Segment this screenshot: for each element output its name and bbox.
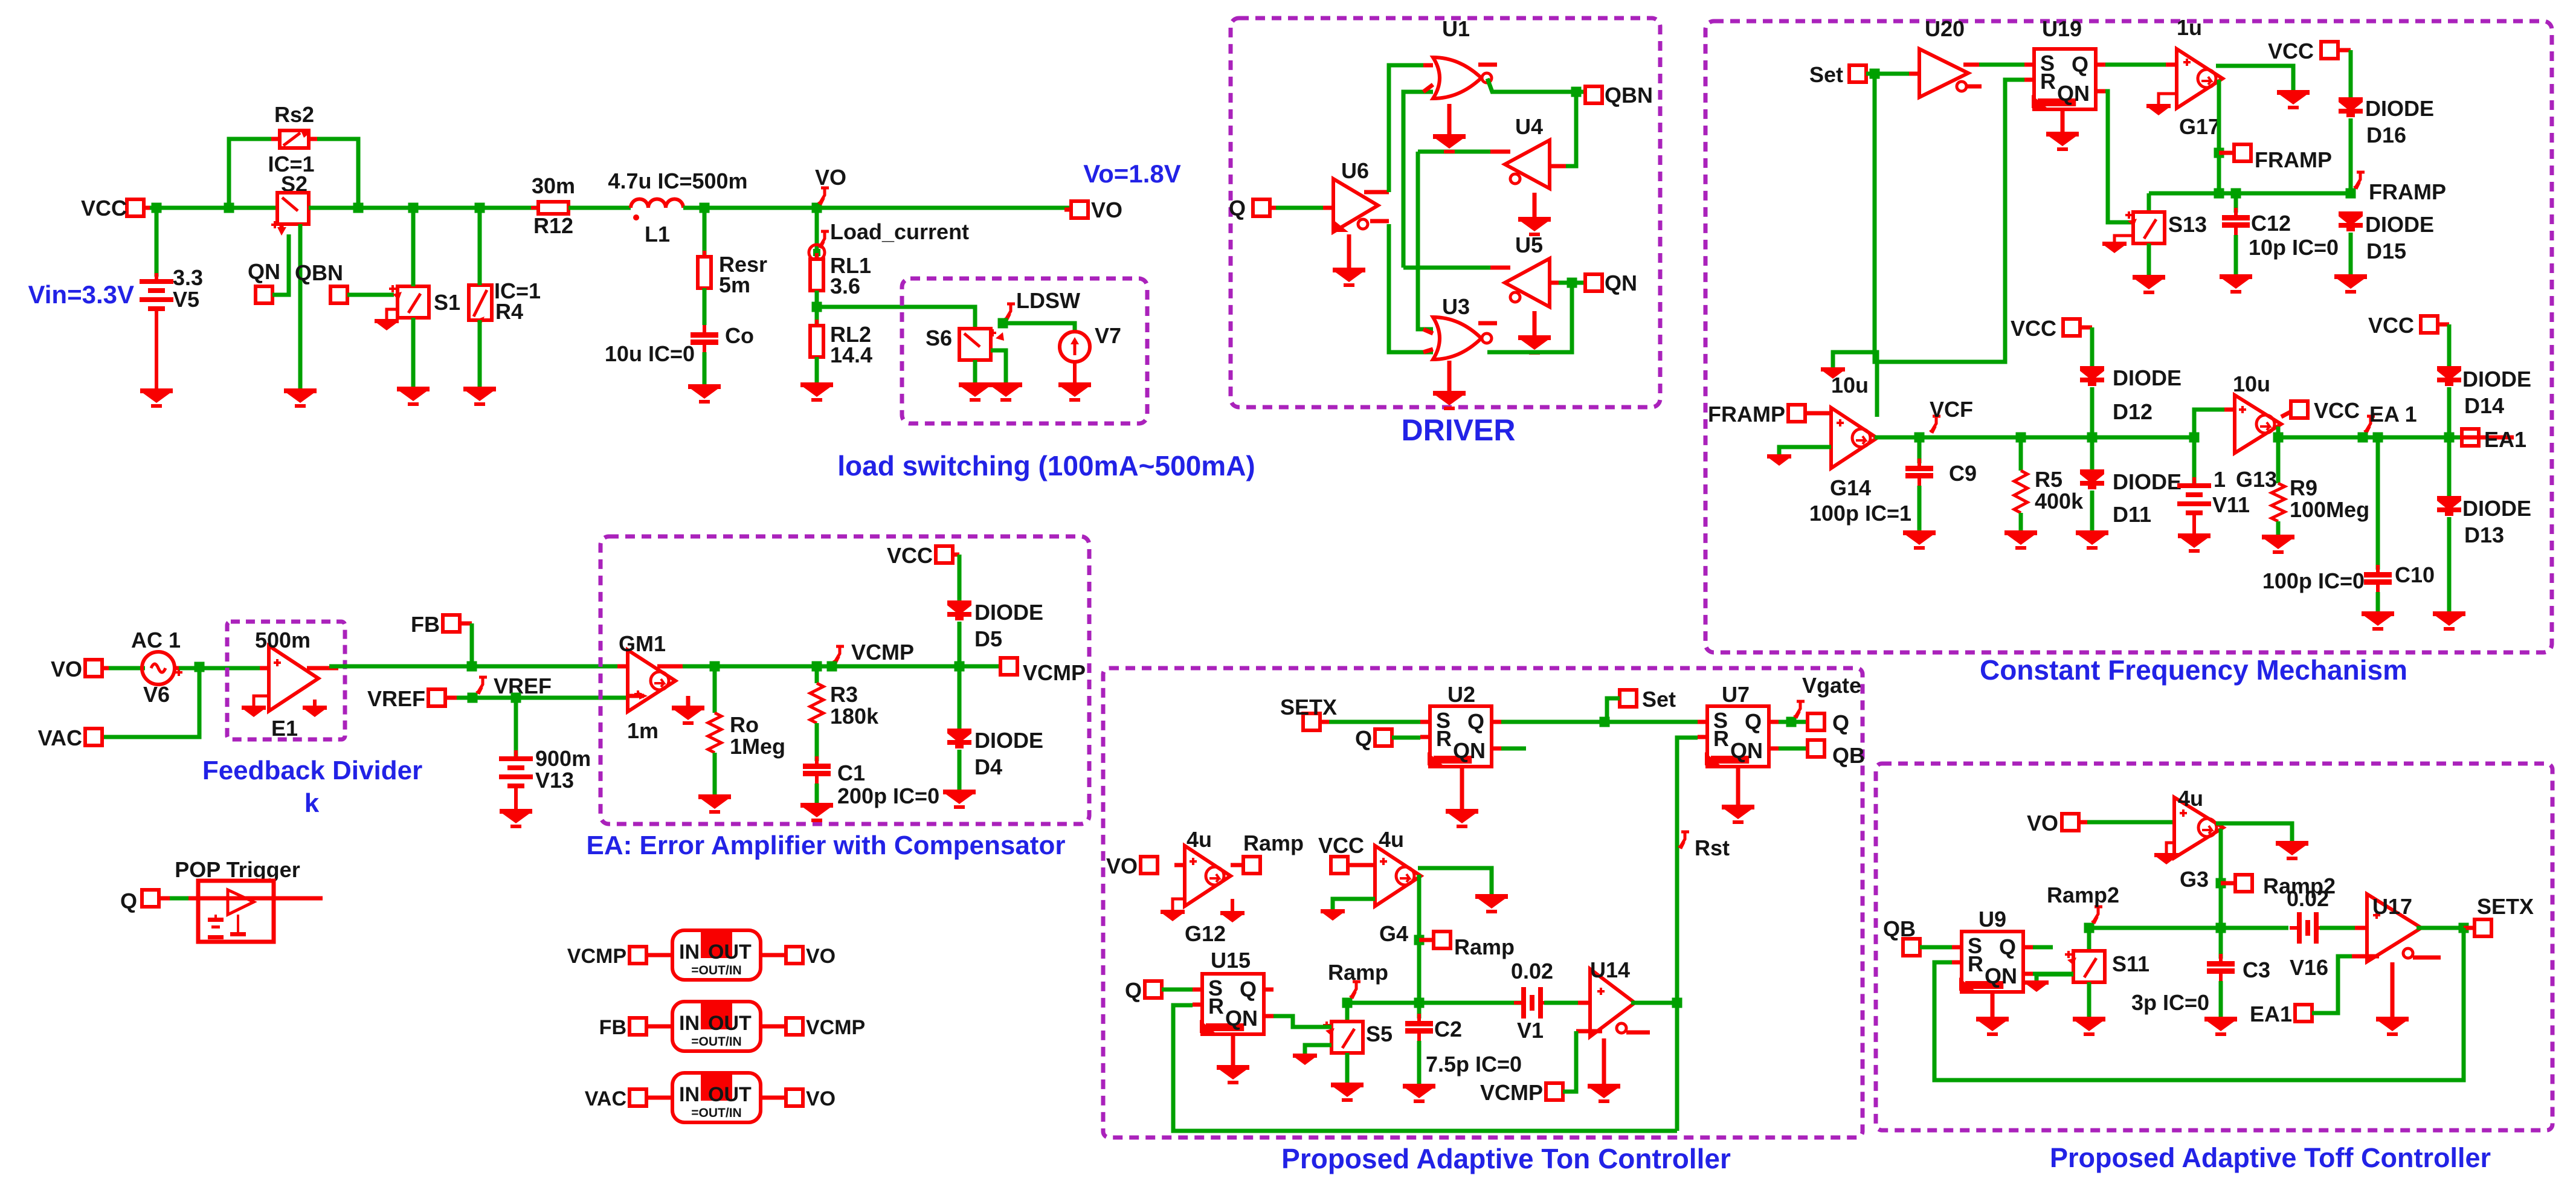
label G13: [2236, 467, 2277, 492]
node junction SETX: [2459, 923, 2469, 933]
wire D13 to ground: [2447, 517, 2452, 611]
svg-text:C9: C9: [1949, 461, 1977, 486]
wire VREF to GM1: [457, 696, 628, 700]
wire G4 to ramp node: [1417, 875, 1422, 1003]
svg-text:V16: V16: [2290, 955, 2328, 980]
terminal VCMP (ea out): [1000, 658, 1086, 685]
probe Rst: [1678, 832, 1730, 860]
svg-text:3.3: 3.3: [173, 265, 203, 290]
amplifier E1: [260, 646, 338, 711]
ground C9: [1903, 530, 1936, 550]
probe Ramp2: [2047, 883, 2119, 924]
wire Co to ground: [703, 352, 707, 384]
ground C2: [1403, 1084, 1435, 1103]
node junction C10: [2373, 433, 2383, 443]
label S11: [2112, 951, 2149, 976]
label C12: [2251, 211, 2291, 236]
label V7: [1095, 323, 1121, 348]
node junction S1: [408, 203, 419, 213]
wire U14 out: [1631, 1001, 1677, 1005]
wire G4 input ground: [1333, 899, 1375, 909]
wire FB drop: [470, 623, 474, 666]
label 4u (G4): [1379, 827, 1404, 852]
ground S11: [2073, 1017, 2105, 1036]
node junction Set: [1600, 717, 1610, 727]
wire S13 small ground: [2114, 236, 2133, 242]
wire U19.Q to G17: [2105, 63, 2175, 67]
label U15: [1211, 948, 1251, 973]
wire EA1 to U17: [2312, 956, 2352, 1013]
terminal VO (fb in): [51, 657, 112, 681]
svg-text:10p IC=0: 10p IC=0: [2249, 235, 2339, 260]
label 1Meg: [730, 734, 785, 759]
terminal EA1 (u17): [2250, 1002, 2312, 1026]
svg-text:VCMP: VCMP: [1480, 1080, 1543, 1105]
wire D12 to bus: [2090, 387, 2095, 437]
wire Q to U15.S: [1162, 988, 1193, 992]
svg-text:VCF: VCF: [1930, 397, 1973, 422]
node junction C9: [1914, 433, 1925, 443]
wire V6 to E1: [179, 666, 260, 671]
svg-text:1Meg: 1Meg: [730, 734, 785, 759]
svg-text:IN: IN: [679, 1083, 700, 1106]
resistor Ro: [708, 666, 721, 753]
label DIODE (D11): [2113, 469, 2182, 494]
switch S1: [389, 285, 429, 318]
wire Rst column: [1677, 738, 1698, 1131]
svg-text:3p IC=0: 3p IC=0: [2131, 990, 2209, 1015]
label R3: [830, 682, 858, 707]
label Toff title: [2050, 1142, 2491, 1173]
label 4u (G3): [2178, 786, 2203, 811]
svg-text:500m: 500m: [255, 628, 311, 652]
label D5: [974, 626, 1002, 651]
terminal QBN: [295, 260, 347, 303]
wire Resr to Co: [703, 288, 707, 325]
terminal Q (u2 r): [1355, 726, 1392, 751]
wire D4 to ground: [958, 750, 962, 790]
ground U6: [1333, 234, 1365, 287]
wire V11 to ground: [2192, 518, 2196, 533]
wire C3 to ground: [2219, 981, 2223, 1017]
svg-text:QN: QN: [248, 259, 280, 284]
label 30m: [532, 173, 575, 198]
svg-text:10u IC=0: 10u IC=0: [605, 341, 695, 366]
svg-text:QN: QN: [1985, 964, 2017, 988]
node junction C3: [2216, 923, 2226, 933]
terminal SETX (ton): [1280, 695, 1337, 730]
svg-text:400k: 400k: [2035, 489, 2084, 513]
label D12: [2113, 399, 2153, 424]
svg-text:Constant Frequency Mechanism: Constant Frequency Mechanism: [1980, 654, 2407, 686]
ground R9: [2262, 535, 2294, 554]
diode D14: [2437, 366, 2461, 386]
box DRIVER: [1231, 18, 1660, 407]
svg-text:U20: U20: [1925, 16, 1965, 41]
comparator U17: [2352, 894, 2441, 962]
svg-text:VO: VO: [51, 657, 82, 681]
wire SETX to U2: [1329, 720, 1420, 724]
nor gate U1: [1423, 57, 1497, 98]
label 200p IC=0 (C1): [837, 784, 939, 808]
wire S6 to grounds: [975, 350, 1006, 382]
gm cell GM1: [617, 650, 686, 712]
svg-text:5m: 5m: [719, 272, 750, 297]
ground C10: [2362, 611, 2394, 631]
wire D16 to FRAMP bus: [2349, 118, 2353, 193]
terminal VCC (D5): [887, 543, 959, 568]
label S6: [926, 326, 952, 350]
box EA: [601, 536, 1089, 824]
label DIODE (D16): [2365, 96, 2434, 121]
svg-text:Vo=1.8V: Vo=1.8V: [1083, 159, 1180, 188]
label D16: [2366, 123, 2406, 147]
wire VCC to D12: [2090, 327, 2095, 367]
probe FRAMP: [2353, 172, 2446, 204]
resistor R3: [810, 666, 823, 723]
svg-text:DIODE: DIODE: [2462, 367, 2531, 391]
ground G17 input: [2146, 104, 2171, 115]
svg-text:4.7u IC=500m: 4.7u IC=500m: [608, 169, 747, 193]
svg-text:VO: VO: [806, 1087, 836, 1110]
ground G4 out: [1475, 894, 1508, 913]
svg-text:U3: U3: [1442, 294, 1470, 319]
block FB to VCMP: [599, 1002, 866, 1051]
svg-text:GM1: GM1: [619, 631, 666, 656]
svg-text:Q: Q: [120, 889, 137, 913]
node junction C2: [1414, 998, 1425, 1008]
svg-text:U9: U9: [1979, 907, 2006, 932]
svg-text:VCMP: VCMP: [851, 640, 914, 665]
wire GM1 out rail: [683, 665, 1001, 669]
svg-text:7.5p IC=0: 7.5p IC=0: [1426, 1052, 1522, 1076]
switch S11: [2065, 928, 2105, 982]
terminal FB: [411, 612, 472, 637]
node junction VCMP probe: [827, 661, 837, 672]
svg-text:R5: R5: [2035, 467, 2062, 492]
wire G3 small ground: [2166, 843, 2174, 853]
probe Vgate: [1793, 673, 1861, 719]
probe VCF: [1929, 397, 1973, 434]
gm cell G3: [2174, 797, 2223, 858]
wire D15 to ground: [2349, 233, 2353, 274]
wire Ramp bus: [1347, 1001, 1523, 1005]
svg-text:U14: U14: [1590, 957, 1630, 982]
source V6: [142, 652, 182, 684]
probe VCMP (ea): [832, 640, 914, 665]
label E1: [271, 716, 298, 741]
svg-text:10u: 10u: [1831, 373, 1869, 397]
svg-text:Proposed Adaptive Ton Controll: Proposed Adaptive Ton Controller: [1281, 1143, 1731, 1174]
ground S5 gate: [1293, 1054, 1317, 1065]
svg-text:1u: 1u: [2177, 15, 2202, 40]
label G17: [2179, 114, 2220, 139]
node junction Resr: [700, 203, 710, 213]
resistor R5: [2014, 437, 2027, 513]
label 0.02 (V1): [1511, 959, 1553, 983]
inverter U20: [1909, 49, 1982, 97]
svg-text:Set: Set: [1642, 687, 1676, 712]
terminal VAC: [38, 726, 102, 750]
wire U5 to QN net: [1559, 281, 1586, 285]
svg-text:R3: R3: [830, 682, 858, 707]
comparator U14: [1576, 969, 1650, 1037]
inductor L1: [631, 199, 683, 221]
svg-text:QB: QB: [1883, 916, 1916, 941]
terminal VCC: [81, 196, 151, 220]
terminal QN (driver): [1585, 271, 1637, 295]
svg-text:EA: Error Amplifier with Compe: EA: Error Amplifier with Compensator: [587, 831, 1066, 860]
wire G17 out down: [2217, 80, 2221, 193]
node junction D4: [955, 661, 965, 672]
svg-text:0.02: 0.02: [2287, 886, 2329, 911]
wire G17 out rail: [2216, 66, 2293, 90]
battery V1: [1514, 987, 1550, 1018]
ground GM1: [672, 696, 704, 725]
wire R5 to ground: [2019, 513, 2023, 530]
label load switching: [837, 450, 1255, 481]
svg-text:Ramp: Ramp: [1328, 960, 1388, 985]
wire Ramp2 bus: [2089, 926, 2221, 930]
svg-text:3.6: 3.6: [830, 274, 860, 298]
svg-text:Co: Co: [725, 323, 754, 348]
svg-text:V7: V7: [1095, 323, 1121, 348]
wire S13 to ground: [2147, 243, 2151, 275]
svg-text:100p IC=1: 100p IC=1: [1809, 501, 1911, 526]
flip-flop U7: [1698, 706, 1779, 767]
svg-text:Q: Q: [1355, 726, 1372, 751]
svg-text:DIODE: DIODE: [974, 600, 1043, 625]
wire bus up to G13: [2194, 410, 2235, 437]
label U7: [1722, 682, 1750, 707]
svg-text:U6: U6: [1341, 158, 1369, 183]
label 100p IC=0 (C10): [2262, 568, 2365, 593]
svg-text:VCC: VCC: [2368, 313, 2414, 338]
svg-text:E1: E1: [271, 716, 298, 741]
svg-text:S11: S11: [2112, 951, 2149, 976]
wire U9.QN to S11: [2033, 972, 2073, 976]
flip-flop U2: [1420, 706, 1501, 767]
label C10: [2395, 562, 2435, 587]
wire S5 small ground: [1305, 1045, 1331, 1054]
wire S2 drain to ground: [298, 224, 303, 388]
node junction D11: [2087, 433, 2098, 443]
svg-text:Proposed Adaptive Toff Control: Proposed Adaptive Toff Controller: [2050, 1142, 2491, 1173]
ground C12: [2220, 274, 2252, 294]
flip-flop U19: [2024, 49, 2105, 109]
capacitor C9: [1905, 437, 1933, 486]
label Constant Frequency Mechanism: [1980, 654, 2407, 686]
wire net C (U4 out to U3.in1): [1418, 152, 1490, 329]
label 0.02 (V16): [2287, 886, 2329, 911]
ground G14 input: [1767, 454, 1791, 466]
svg-text:R: R: [1208, 994, 1224, 1018]
terminal Q (ton out): [1808, 710, 1849, 735]
resistor Rs2: [271, 129, 317, 148]
svg-text:DRIVER: DRIVER: [1402, 413, 1516, 447]
label R4: [495, 299, 523, 324]
svg-text:Q: Q: [1467, 709, 1484, 734]
wire D11 to ground: [2090, 491, 2095, 530]
svg-text:k: k: [304, 788, 320, 818]
label U2: [1447, 682, 1475, 707]
ground U14: [1588, 1038, 1620, 1103]
label 4u (G12): [1187, 827, 1212, 852]
label DIODE (D15): [2365, 212, 2434, 237]
wire U15.QN to S5: [1274, 1016, 1331, 1027]
wire VO to V6: [109, 666, 145, 671]
label D14: [2464, 393, 2504, 418]
svg-text:VCC: VCC: [2314, 398, 2360, 423]
wire U20 to U19.S: [1979, 63, 2024, 67]
label V16: [2290, 955, 2328, 980]
svg-text:DIODE: DIODE: [974, 728, 1043, 753]
svg-text:OUT: OUT: [708, 941, 752, 964]
svg-text:4u: 4u: [1187, 827, 1212, 852]
battery V13: [499, 698, 533, 796]
wire C12 to ground: [2234, 235, 2238, 274]
probe Ramp (bus): [1328, 960, 1388, 999]
svg-text:AC 1: AC 1: [131, 628, 181, 652]
label U5: [1515, 233, 1543, 257]
node junction Rs2-right: [353, 203, 364, 213]
svg-text:Ramp2: Ramp2: [2047, 883, 2119, 907]
node junction Vgate: [1786, 717, 1797, 727]
ground U5: [1518, 311, 1551, 355]
label D13: [2464, 523, 2504, 547]
resistor Resr: [698, 251, 711, 294]
wire V5 to ground: [155, 314, 158, 388]
svg-text:LDSW: LDSW: [1016, 288, 1080, 313]
wire RL1 to RL2: [815, 291, 819, 327]
wire Rs2 loop: [229, 139, 358, 208]
label DRIVER: [1402, 413, 1516, 447]
diode D13: [2437, 437, 2461, 516]
wire G12 input ground: [1173, 899, 1185, 910]
buffer U4: [1490, 140, 1566, 188]
label 900m: [535, 746, 591, 771]
svg-text:Vgate: Vgate: [1802, 673, 1861, 698]
terminal QB (ton out): [1808, 740, 1865, 768]
wire E1 to GM1: [329, 665, 619, 669]
svg-text:Rst: Rst: [1695, 835, 1730, 860]
terminal VCC (D12): [2011, 316, 2092, 341]
label V6: [143, 682, 170, 707]
svg-text:S13: S13: [2168, 212, 2207, 237]
wire D14 to bus: [2447, 387, 2452, 437]
node junction FRAMP a: [2214, 188, 2224, 199]
gm cell G12: [1174, 846, 1244, 906]
svg-text:G13: G13: [2236, 467, 2277, 492]
node junction LDSW: [998, 318, 1008, 329]
capacitor C1: [803, 723, 831, 784]
svg-text:D16: D16: [2366, 123, 2406, 147]
node junction FRAMP term: [2214, 148, 2224, 158]
svg-text:Q: Q: [1125, 978, 1142, 1003]
ground V13: [500, 809, 532, 828]
wire U9.Q stub: [2033, 945, 2053, 950]
svg-text:S1: S1: [434, 290, 460, 315]
label RL2: [830, 322, 871, 347]
label C9: [1949, 461, 1977, 486]
trigger POP Trigger: [160, 857, 323, 942]
diode D4: [947, 666, 971, 748]
resistor RL2: [810, 320, 823, 363]
ground E1 a: [242, 706, 266, 717]
ground G3 out: [2276, 841, 2308, 860]
wire R9 to ground: [2276, 521, 2281, 535]
svg-text:0.02: 0.02: [1511, 959, 1553, 983]
svg-text:D4: D4: [974, 755, 1002, 779]
svg-text:C3: C3: [2243, 957, 2270, 982]
svg-text:G14: G14: [1830, 475, 1871, 500]
svg-text:D13: D13: [2464, 523, 2504, 547]
wire U17 out: [2417, 926, 2464, 930]
ground C3: [2204, 1017, 2237, 1036]
label DIODE (D5): [974, 600, 1043, 625]
wire tap to S6: [817, 307, 975, 330]
label C1: [837, 761, 865, 785]
label Rs2: [274, 102, 314, 127]
capacitor C3: [2207, 928, 2235, 981]
svg-text:QN: QN: [2057, 81, 2090, 106]
terminal VO (g3): [2027, 811, 2091, 835]
svg-text:D15: D15: [2366, 239, 2406, 263]
svg-text:G17: G17: [2179, 114, 2220, 139]
resistor R9: [2272, 437, 2285, 521]
svg-text:FB: FB: [411, 612, 440, 637]
box load switching: [902, 278, 1147, 423]
svg-text:VO: VO: [1106, 854, 1138, 878]
ground U2: [1446, 767, 1478, 828]
svg-text:QN: QN: [1225, 1006, 1258, 1031]
node junction V11: [2189, 433, 2200, 443]
svg-text:SETX: SETX: [2477, 894, 2534, 919]
node junction QBN: [1571, 87, 1582, 97]
node junction Ramp left: [1342, 998, 1353, 1008]
ground R4: [463, 387, 496, 406]
svg-text:VO: VO: [815, 165, 846, 190]
wire EA1 bus: [2278, 436, 2514, 440]
source V5 wire: [155, 208, 159, 277]
svg-text:900m: 900m: [535, 746, 591, 771]
switch S13: [2125, 193, 2165, 243]
battery V16: [2290, 912, 2326, 944]
svg-text:EA1: EA1: [2484, 427, 2526, 452]
wire U19.QN to S13: [2105, 91, 2135, 222]
label Resr: [719, 252, 767, 277]
svg-text:R: R: [2040, 69, 2056, 94]
label R5: [2035, 467, 2062, 492]
resistor R12: [531, 202, 576, 214]
ground U3: [1433, 361, 1466, 410]
label V13: [535, 768, 574, 793]
svg-text:S5: S5: [1366, 1022, 1393, 1046]
ground U1: [1433, 104, 1466, 153]
label V1: [1517, 1018, 1544, 1043]
label S5: [1366, 1022, 1393, 1046]
svg-text:V13: V13: [535, 768, 574, 793]
ground G17 out: [2277, 90, 2310, 109]
ground U19: [2046, 109, 2079, 151]
label 3.6: [830, 274, 860, 298]
wire VCC to D5: [958, 555, 962, 602]
svg-text:L1: L1: [645, 222, 670, 246]
terminal Set: [1809, 62, 1866, 87]
label L1: [645, 222, 670, 246]
wire C3 to V16: [2221, 926, 2288, 930]
wire Ro to ground: [713, 753, 717, 794]
